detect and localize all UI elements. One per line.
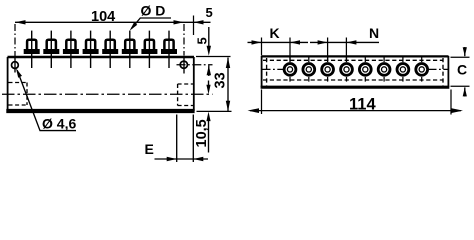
svg-text:K: K — [270, 25, 280, 41]
dimension 104 — [15, 9, 184, 25]
left view: front elevation of terminal strip — [6, 57, 194, 111]
hidden edges top view (dashed) — [263, 58, 443, 86]
pin 8 (front view terminal) — [161, 31, 177, 68]
label Ø D with leader to pin 6 — [130, 3, 171, 31]
screw hole 6 (top view) — [378, 57, 390, 81]
mounting hole left with centerline — [12, 24, 19, 73]
svg-text:C: C — [457, 62, 467, 78]
pin 2 (front view terminal) — [43, 31, 59, 68]
dimension C (strip depth) — [451, 47, 470, 97]
body outline top view — [262, 55, 449, 57]
screw hole 3 (top view) — [322, 57, 334, 81]
screw hole 8 (top view) — [416, 57, 428, 81]
pin 7 (front view terminal) — [141, 31, 157, 68]
label Ø 4,6 with leader to left hole — [16, 68, 76, 131]
body outline front view — [8, 56, 195, 59]
pin 3 (front view terminal) — [63, 31, 79, 68]
pin 5 (front view terminal) — [102, 31, 118, 68]
dimension E — [145, 115, 209, 163]
screw hole 5 (top view) — [359, 57, 371, 81]
svg-text:Ø 4,6: Ø 4,6 — [42, 115, 76, 131]
dimension 114 (overall length) — [248, 90, 464, 115]
pin 6 (front view terminal) — [122, 31, 138, 68]
screw hole 1 (top view) — [284, 57, 296, 81]
svg-text:33: 33 — [213, 72, 229, 88]
svg-text:104: 104 — [91, 9, 115, 25]
svg-text:N: N — [369, 25, 379, 41]
pin 4 (front view terminal) — [83, 31, 99, 68]
screw hole 2 (top view) — [303, 57, 315, 81]
hidden recess left (dashed) — [9, 83, 28, 106]
centreline bits in margins — [263, 68, 285, 70]
svg-text:Ø D: Ø D — [141, 3, 166, 19]
pin 1 (front view terminal) — [24, 31, 40, 68]
dimension K — [248, 25, 309, 62]
svg-text:5: 5 — [195, 37, 210, 44]
dimension 5 (vertical, body top to hole centre) — [195, 27, 231, 76]
top view: plan of terminal strip — [261, 56, 450, 87]
body bottom thick edge — [6, 109, 194, 113]
svg-text:E: E — [145, 141, 154, 157]
svg-text:114: 114 — [349, 95, 376, 113]
hidden recess right (dashed) — [178, 84, 193, 106]
dimension 5 (top, hole centre to body edge) — [184, 5, 213, 35]
svg-text:10,5: 10,5 — [194, 119, 210, 147]
horizontal centerline front view — [2, 93, 213, 95]
dimension N (hole pitch) — [310, 25, 379, 62]
screw hole 7 (top view) — [397, 57, 409, 81]
mounting hole right with centerlines — [177, 24, 213, 74]
dimension 33 (body height) — [197, 58, 232, 112]
top view bottom thick edge — [261, 86, 450, 89]
svg-text:5: 5 — [206, 5, 213, 20]
dimension 10,5 (centreline to bottom) — [194, 81, 211, 153]
screw hole 4 (top view) — [341, 57, 353, 81]
